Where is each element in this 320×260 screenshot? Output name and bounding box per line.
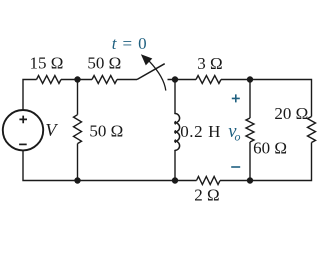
polarity minus sign for v_o [231,166,240,168]
wire from inductor down to bottom node [174,150,176,180]
voltage source plus sign [19,116,27,124]
resistor 50 Ohm (horizontal, top) [92,76,117,84]
junction dot at bottom of 60 Ohm branch [247,177,253,183]
inductor coil crossing curls [174,121,177,142]
svg-text:50 Ω: 50 Ω [87,54,121,73]
svg-text:15 Ω: 15 Ω [30,54,64,73]
resistor 3 Ohm (horizontal, top right) [196,76,221,84]
wire bottom-right corner from 20 Ohm to 2 Ohm resistor [220,143,312,181]
svg-text:20 Ω: 20 Ω [274,104,308,123]
svg-text:0.2 H: 0.2 H [180,122,221,141]
wire from top node down to inductor [174,80,176,114]
wire from 60 Ohm resistor down to bottom node [249,142,251,181]
svg-text:V: V [45,120,58,140]
switch motion arc [149,61,166,91]
resistor 50 Ohm (vertical, middle left) [74,115,82,144]
junction dot at top of 50 Ohm branch [74,76,80,82]
svg-text:2 Ω: 2 Ω [194,186,219,205]
voltage source minus sign [19,143,27,145]
wire from 3 Ohm resistor to top-right corner and down [221,80,312,117]
svg-text:t = 0: t = 0 [112,34,148,53]
junction dot at bottom of inductor branch [172,177,178,183]
resistor 60 Ohm (vertical, middle right) [246,118,254,142]
inductor 0.2 H (vertical coil of four loops) [175,114,180,151]
wire between 15 Ohm and 50 Ohm resistors [61,79,92,81]
wire from vertical 50 Ohm resistor down to bottom node [77,144,79,181]
svg-text:3 Ω: 3 Ω [197,54,222,73]
switch arrowhead [141,54,152,65]
svg-text:50 Ω: 50 Ω [89,121,123,140]
resistor 20 Ohm (vertical, right edge) [308,117,316,143]
voltage source V circle [3,110,43,150]
switch blade (opening at t = 0) [137,64,165,80]
polarity plus sign for v_o [232,94,240,102]
junction dot at bottom of 50 Ohm branch [74,177,80,183]
svg-text:vo: vo [228,122,240,144]
wire top-left corner and segment to 15 Ohm resistor [23,80,37,111]
junction dot at top of 60 Ohm branch [247,76,253,82]
resistor 2 Ohm (horizontal, bottom) [197,177,221,185]
svg-text:60 Ω: 60 Ω [253,138,287,157]
resistor 15 Ohm (horizontal, top left) [37,76,62,84]
wire from 50 Ohm resistor to switch left contact [117,79,137,81]
junction dot at top of inductor branch [172,76,178,82]
wire bottom-left corner and bottom wire to 2 Ohm resistor [23,150,197,180]
wire from top node down to 60 Ohm resistor [249,80,251,119]
wire from top node down to vertical 50 Ohm resistor [77,80,79,115]
wire from switch right contact to inductor node [168,79,197,81]
